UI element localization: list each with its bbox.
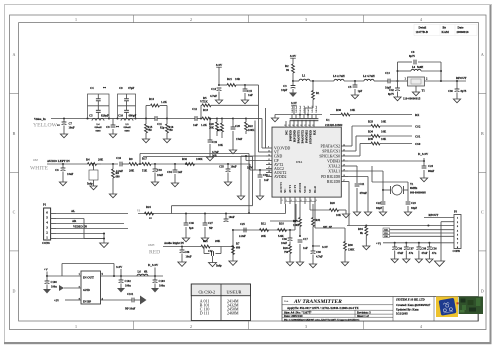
wire PD RIG1D8 down	[348, 176, 368, 178]
filter box C9 C10	[118, 94, 136, 119]
ground under C38	[309, 264, 316, 268]
svg-text:Date: Date	[458, 25, 465, 29]
inductor L4	[92, 119, 104, 121]
capacitor C96	[394, 242, 396, 244]
svg-text:C5: C5	[89, 114, 93, 118]
capacitor C17	[299, 235, 301, 237]
svg-text:20: 20	[343, 164, 345, 166]
ground under C8	[109, 134, 116, 138]
wire crystal right	[404, 189, 409, 191]
svg-text:R12: R12	[261, 223, 266, 226]
svg-text:1uF: 1uF	[178, 171, 183, 174]
svg-text:100K: 100K	[293, 224, 300, 227]
capacitor C97	[405, 242, 407, 244]
ground under C30	[453, 99, 460, 103]
svg-text:By: By	[443, 25, 447, 29]
svg-text:SPI_SE: SPI_SE	[323, 226, 332, 229]
wire audio left	[47, 163, 88, 165]
filter F1 pin3 ground	[415, 86, 417, 92]
capacitor C8	[112, 119, 114, 126]
svg-text:C101: C101	[127, 293, 134, 296]
svg-text:VT1K: VT1K	[200, 100, 208, 104]
resistor R37 vertical	[365, 226, 367, 228]
wire video to R19 node	[217, 118, 222, 120]
wire to C12	[167, 118, 195, 120]
junction C20	[232, 117, 234, 119]
svg-text:6: 6	[301, 200, 302, 202]
regulator top bypass wire	[62, 263, 114, 265]
capacitor C27	[204, 212, 206, 214]
wire 3.3V to VCOVDD	[245, 84, 259, 86]
page edge shadow bottom	[4, 342, 492, 344]
svg-text:10K: 10K	[336, 214, 342, 217]
svg-text:C4: C4	[90, 86, 94, 90]
svg-text:470nF: 470nF	[360, 192, 368, 195]
ground under C39	[256, 196, 263, 200]
svg-text:R32: R32	[182, 157, 188, 161]
svg-text:17: 17	[268, 167, 270, 169]
svg-text:82p: 82p	[160, 126, 165, 130]
regulator U2 LDO	[81, 271, 101, 304]
wire audio out left	[138, 213, 286, 215]
svg-text:L2 4.7nH: L2 4.7nH	[363, 74, 375, 78]
svg-text:C20: C20	[235, 124, 241, 128]
capacitor C31 box	[92, 163, 94, 165]
svg-text:R18: R18	[279, 223, 284, 226]
wire XTAL1 to crystal	[348, 170, 383, 172]
logo green PCB photo	[459, 297, 483, 315]
junction RF node	[292, 80, 294, 82]
junction C39	[259, 169, 261, 171]
ground under C98	[415, 259, 422, 263]
wire AOUT1 run	[285, 204, 287, 214]
capacitor C7	[63, 119, 65, 123]
bypass caps row above IC	[290, 118, 295, 120]
svg-text:R33: R33	[368, 120, 374, 124]
capacitor C32 bypass loop	[203, 247, 205, 254]
zone ticks bottom	[133, 321, 135, 330]
junction R20 tap	[216, 117, 218, 119]
svg-text:RED: RED	[149, 249, 160, 255]
ground at IC top rail	[274, 115, 276, 119]
capacitor C20	[232, 119, 234, 128]
svg-text:C16: C16	[116, 156, 122, 160]
IC top bypass rail	[275, 114, 322, 116]
ground under R26	[286, 262, 293, 266]
wire to R7	[232, 230, 234, 261]
junction C100	[46, 275, 48, 277]
resistor R17	[142, 163, 151, 166]
svg-text:5: 5	[296, 200, 297, 202]
resistor R1 tap	[312, 80, 314, 82]
svg-text:GND: GND	[83, 288, 91, 292]
svg-text:33pF: 33pF	[376, 207, 382, 210]
svg-text:T1: T1	[422, 89, 426, 93]
svg-text:C25: C25	[240, 223, 245, 226]
ground under C14	[215, 100, 222, 104]
wire VIDEO IN	[56, 228, 128, 230]
ground under C31	[90, 186, 97, 190]
svg-text:C38: C38	[316, 251, 321, 254]
svg-text:13: 13	[268, 150, 270, 152]
svg-text:100n: 100n	[51, 286, 57, 289]
svg-text:670A: 670A	[296, 161, 302, 164]
svg-text:C27: C27	[208, 222, 213, 225]
svg-text:B: B	[481, 131, 484, 136]
svg-text:R31: R31	[316, 219, 321, 222]
svg-text:D: D	[13, 289, 16, 294]
svg-text:25: 25	[312, 125, 314, 127]
svg-text:GND: GND	[274, 154, 282, 158]
ground under C22	[379, 212, 386, 216]
ground RFGND	[364, 212, 371, 216]
svg-text:10uF: 10uF	[69, 127, 75, 130]
wire AL	[56, 213, 128, 215]
op-amp U1 211328-10382 main IC	[272, 127, 341, 197]
resistor R21	[219, 84, 227, 86]
wire aout loop upper	[172, 205, 253, 207]
svg-text:8p75: 8p75	[461, 90, 467, 93]
rail wire upper	[140, 153, 249, 155]
wire C32 to ground	[212, 256, 214, 263]
svg-text:+V: +V	[44, 269, 48, 272]
bypass loop with R14	[145, 106, 147, 119]
svg-text:8p75: 8p75	[388, 93, 394, 96]
svg-text:3: 3	[305, 17, 307, 22]
inductor L1	[293, 80, 299, 82]
ground under C19	[206, 157, 213, 161]
logo yellow background	[436, 297, 458, 318]
wire pin3 long bus	[347, 225, 454, 227]
wire NC pin down	[295, 204, 297, 221]
ground solid under C102	[117, 288, 125, 293]
ground under C15	[241, 100, 248, 104]
svg-text:SPILE/CS1: SPILE/CS1	[322, 149, 340, 153]
capacitor C16 series	[119, 162, 121, 167]
svg-text:10K: 10K	[381, 137, 387, 141]
svg-text:C44 1uF: C44 1uF	[308, 105, 310, 113]
svg-text:C6: C6	[55, 168, 59, 172]
svg-text:1uF: 1uF	[248, 93, 253, 97]
capacitor C8 top	[413, 60, 415, 65]
page edge left	[4, 4, 6, 342]
resistor R35	[371, 142, 380, 145]
resistor R31 vertical	[312, 204, 314, 218]
svg-text:CON6: CON6	[42, 242, 50, 245]
svg-text:Date: 2005/1/20: Date: 2005/1/20	[284, 315, 303, 318]
svg-text:Revision: 5: Revision: 5	[357, 310, 371, 314]
svg-text:26: 26	[308, 125, 310, 127]
wire flag CS0 to pin6	[390, 235, 455, 237]
svg-text:C30: C30	[448, 90, 453, 93]
ground under C6	[59, 182, 66, 186]
IC bottom pin stubs	[280, 197, 282, 204]
capacitor C21	[355, 183, 360, 185]
detail table top right	[414, 25, 477, 36]
resistor R12	[260, 229, 269, 232]
wire IC GND pin down	[241, 155, 266, 157]
svg-text:211328-10382: 211328-10382	[325, 123, 343, 127]
capacitor C2	[292, 81, 294, 86]
crystal Y1	[390, 186, 392, 194]
svg-text:4.7uF: 4.7uF	[210, 94, 217, 98]
capacitor C35	[227, 163, 229, 165]
wire pin2 down	[441, 221, 454, 223]
ground under C33	[151, 182, 158, 186]
svg-text:C41 1uF: C41 1uF	[296, 105, 298, 113]
page edge top	[4, 4, 491, 6]
svg-text:1uF: 1uF	[264, 179, 269, 182]
wire chain left end	[233, 229, 240, 231]
svg-text:10K: 10K	[381, 130, 387, 134]
svg-text:R26: R26	[283, 247, 288, 250]
svg-text:Ch CS0-2: Ch CS0-2	[199, 290, 216, 295]
resistor R9	[122, 163, 129, 165]
svg-text:SYSTEM X-10 HK. LTD: SYSTEM X-10 HK. LTD	[396, 298, 425, 301]
svg-text:YELLOW: YELLOW	[33, 122, 58, 128]
junction C14	[218, 84, 220, 86]
capacitor C103	[154, 276, 156, 280]
svg-text:18: 18	[343, 175, 345, 177]
svg-text:R11: R11	[203, 239, 208, 243]
capacitor C5 shunt	[354, 80, 356, 82]
junction out dots	[113, 275, 115, 277]
capacitor C28	[225, 212, 227, 214]
svg-text:24: 24	[343, 144, 345, 146]
svg-text:AVT1: AVT1	[288, 185, 292, 193]
svg-text:C46 1uF: C46 1uF	[316, 105, 318, 113]
svg-text:D 111: D 111	[200, 311, 210, 316]
svg-text:C23: C23	[411, 202, 416, 205]
svg-text:B: B	[13, 131, 16, 136]
wire +V	[46, 272, 48, 277]
capacitor C14	[217, 87, 222, 89]
svg-text:10uF: 10uF	[157, 174, 163, 177]
junction R22	[245, 117, 247, 119]
junction dots top rail	[299, 113, 301, 115]
svg-text:C8: C8	[106, 125, 110, 129]
ground under C96	[391, 259, 398, 263]
svg-text:L3 2.7nH: L3 2.7nH	[333, 74, 345, 78]
capacitor C42 shunt	[397, 81, 399, 88]
resistor R20	[216, 119, 218, 123]
svg-text:C36: C36	[282, 238, 287, 241]
zone ticks left	[10, 93, 19, 95]
svg-text:47u: 47u	[409, 252, 414, 255]
capacitor C10	[124, 109, 129, 111]
svg-text:Size: A4 | No: "11677": Size: A4 | No: "11677"	[284, 310, 312, 314]
svg-text:10pF: 10pF	[281, 88, 287, 92]
svg-text:AVDD2: AVDD2	[274, 175, 286, 179]
svg-text:BGR: BGR	[313, 185, 317, 193]
svg-text:750: 750	[284, 251, 289, 254]
svg-text:19: 19	[268, 175, 270, 177]
svg-text:69nF: 69nF	[428, 169, 434, 173]
svg-text:VIDEO IN: VIDEO IN	[73, 224, 88, 228]
wire XTAL2 net	[348, 165, 357, 167]
ground solid under C2	[289, 93, 297, 98]
ground under C23	[404, 212, 411, 216]
svg-text:C42: C42	[389, 89, 394, 92]
svg-text:5n6p: 5n6p	[216, 265, 222, 268]
svg-text:27: 27	[304, 125, 306, 127]
ground under C34	[171, 183, 178, 187]
svg-text:750: 750	[169, 129, 174, 132]
svg-text:8: 8	[311, 200, 312, 202]
svg-text:0603: 0603	[96, 129, 102, 132]
svg-text:2468M: 2468M	[227, 311, 239, 316]
ground left arrow pin2	[59, 285, 64, 291]
svg-text:1pF: 1pF	[358, 90, 363, 93]
svg-text:C13: C13	[385, 72, 390, 75]
power 3.3V tap below IC	[313, 245, 320, 247]
svg-text:NP 10uF: NP 10uF	[125, 308, 136, 311]
svg-text:5/21/2005: 5/21/2005	[396, 311, 408, 315]
capacitor C46	[185, 212, 187, 214]
svg-text:C10: C10	[118, 114, 124, 118]
capacitor C101 series	[131, 298, 133, 303]
svg-text:20K: 20K	[215, 239, 221, 243]
wire to C20	[222, 118, 233, 120]
svg-text:C100: C100	[51, 281, 58, 284]
svg-text:3.3V: 3.3V	[216, 63, 223, 67]
zone ticks right	[479, 93, 487, 95]
svg-text:NC: NC	[283, 188, 287, 193]
svg-text:20K: 20K	[261, 235, 267, 238]
svg-text:U1: U1	[326, 118, 330, 122]
junction R6	[112, 163, 114, 165]
title block outline	[282, 297, 478, 322]
svg-text:23: 23	[343, 149, 345, 151]
capacitor C5	[96, 109, 101, 111]
svg-text:1.2K: 1.2K	[161, 100, 168, 104]
svg-text:CON9: CON9	[453, 250, 461, 253]
svg-text:AV TRANSMITTER: AV TRANSMITTER	[293, 299, 342, 305]
resistor R30 vertical	[344, 242, 347, 251]
svg-text:C42 1uF: C42 1uF	[300, 105, 302, 113]
svg-text:15: 15	[268, 159, 270, 161]
svg-text:C34: C34	[167, 171, 172, 174]
resistor R11	[201, 245, 210, 248]
svg-text:R34: R34	[358, 228, 363, 231]
svg-text:10uF: 10uF	[67, 172, 73, 176]
svg-text:VDDH3: VDDH3	[327, 159, 340, 163]
resistor R14	[151, 104, 160, 107]
resistor R34	[371, 135, 380, 138]
capacitor C15	[244, 85, 246, 89]
svg-text:130K: 130K	[348, 249, 355, 252]
svg-text:10K: 10K	[218, 144, 224, 147]
svg-text:2: 2	[282, 200, 283, 202]
wire BP pin4	[100, 299, 132, 301]
resistor R36 RX line	[330, 114, 341, 116]
svg-text:RIG1D8: RIG1D8	[327, 180, 340, 184]
svg-text:R13: R13	[203, 108, 209, 112]
wire video in	[51, 118, 88, 120]
svg-text:R1: R1	[316, 92, 320, 95]
svg-text:C5: C5	[348, 86, 352, 89]
capacitor C24	[423, 161, 425, 166]
svg-text:30: 30	[292, 125, 294, 127]
svg-text:R34: R34	[368, 130, 374, 134]
capacitor C26	[181, 247, 183, 251]
svg-text:4: 4	[420, 324, 422, 329]
IC right pin stubs	[341, 145, 348, 147]
wire flag CS1 to pin5	[390, 232, 455, 234]
ground under C26	[178, 262, 186, 266]
capacitor C33	[154, 163, 156, 165]
svg-text:+V): +V)	[376, 242, 381, 246]
resistor R13	[197, 118, 201, 120]
capacitor C13 series	[387, 79, 389, 84]
svg-text:R30: R30	[348, 244, 353, 247]
capacitor C100	[46, 276, 48, 281]
svg-text:5p6: 5p6	[189, 227, 194, 230]
svg-text:20K: 20K	[98, 158, 104, 162]
wire IC CP pin	[246, 160, 266, 162]
svg-text:10K: 10K	[381, 120, 387, 124]
ground IC GND	[237, 196, 244, 200]
ground right arrow after C101	[134, 299, 140, 301]
ground under R6	[109, 194, 116, 198]
svg-text:C19: C19	[212, 140, 218, 144]
ground under C21	[353, 212, 360, 216]
capacitor C38	[312, 246, 314, 251]
svg-text:15uF: 15uF	[236, 137, 242, 141]
svg-text:R4: R4	[86, 158, 90, 162]
svg-text:1uF: 1uF	[303, 247, 308, 250]
svg-text:10uF: 10uF	[281, 242, 287, 245]
svg-text:WHITE: WHITE	[30, 165, 49, 171]
net flag CS0 box	[383, 234, 390, 237]
junction dots box2	[116, 117, 118, 119]
svg-text:3.3V: 3.3V	[322, 245, 329, 249]
capacitor C9	[124, 98, 129, 100]
svg-text:AL: AL	[71, 209, 75, 213]
svg-text:3: 3	[286, 200, 287, 202]
svg-text:IN BP: IN BP	[83, 300, 91, 304]
junction C26	[181, 245, 183, 247]
svg-text:5n6H: 5n6H	[417, 66, 424, 69]
wire to R22	[233, 118, 246, 120]
svg-text:CS1: CS1	[415, 135, 421, 139]
svg-text:9: 9	[316, 200, 317, 202]
wire gnd pin2	[64, 287, 81, 289]
ground under pin2 wire	[434, 261, 444, 266]
wire BGR to R30	[314, 204, 316, 228]
resistor R32	[185, 163, 187, 165]
inductor L6 out	[137, 274, 148, 276]
wire RF out	[441, 80, 466, 82]
ground under R16	[163, 139, 170, 143]
svg-text:R7: R7	[236, 243, 240, 246]
wire CS2 from pin	[348, 145, 352, 147]
svg-text:2: 2	[190, 17, 192, 22]
svg-text:5n6p: 5n6p	[87, 183, 93, 186]
svg-text:C35: C35	[219, 166, 224, 169]
svg-text:1: 1	[75, 17, 77, 22]
svg-text:AUDIO LEFT IN: AUDIO LEFT IN	[47, 159, 70, 163]
svg-text:10uF: 10uF	[186, 256, 192, 259]
svg-text:110-00000015: 110-00000015	[403, 97, 421, 101]
svg-text:8MHz: 8MHz	[410, 187, 418, 190]
ground under C32	[209, 263, 217, 267]
capacitor C25 series	[243, 228, 245, 233]
svg-text:Title: Title	[284, 301, 289, 303]
svg-text:SPICLK/CS0: SPICLK/CS0	[319, 154, 340, 158]
junction R19	[221, 117, 223, 119]
svg-text:US/EUR: US/EUR	[227, 290, 242, 295]
